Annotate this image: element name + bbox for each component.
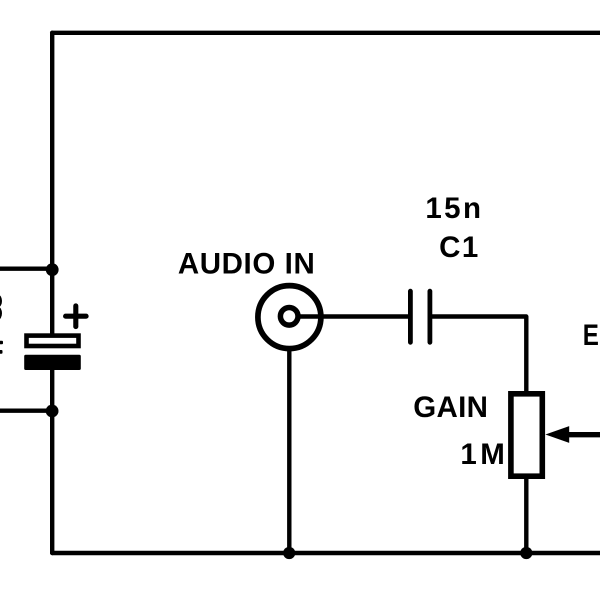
wire potentiometer to ground rail — [524, 478, 528, 553]
svg-text:AUDIO IN: AUDIO IN — [178, 248, 316, 281]
capacitor electrolytic bottom plate — [24, 355, 81, 370]
wire left stub bottom — [0, 409, 52, 413]
connector J1 audio jack inner ring — [280, 308, 298, 326]
node junction bottom-left — [46, 405, 59, 418]
node junction jack-ground — [283, 547, 295, 559]
label partial value at left edge (right side of a glyph) — [0, 295, 2, 320]
potentiometer wiper arrow shaft — [568, 432, 600, 437]
wire jack sleeve to ground rail — [287, 350, 291, 553]
node junction pot-ground — [520, 547, 532, 559]
svg-text:15n: 15n — [425, 192, 483, 225]
potentiometer R1 body — [511, 394, 542, 476]
label partial designator at left edge (two bar ends) — [0, 341, 3, 354]
polarity plus sign — [66, 306, 87, 327]
svg-text:GAIN: GAIN — [413, 391, 488, 424]
wire top rail — [52, 31, 600, 35]
wire bottom rail — [52, 551, 600, 555]
wire left rail upper segment — [50, 33, 54, 335]
capacitor C1 right plate — [427, 291, 432, 342]
capacitor C1 left plate — [408, 291, 413, 342]
potentiometer wiper arrowhead — [545, 426, 569, 443]
connector J1 audio jack outer ring — [258, 286, 321, 349]
wire jack tip to C1 — [298, 314, 409, 318]
node junction top-left — [46, 263, 59, 276]
wire left stub top — [0, 267, 52, 271]
svg-text:C1: C1 — [439, 231, 480, 264]
wire C1 to potentiometer — [432, 317, 526, 392]
capacitor electrolytic top plate — [27, 336, 79, 346]
svg-text:E: E — [583, 319, 599, 352]
wire left rail lower segment — [50, 369, 54, 553]
svg-text:1M: 1M — [460, 438, 508, 471]
